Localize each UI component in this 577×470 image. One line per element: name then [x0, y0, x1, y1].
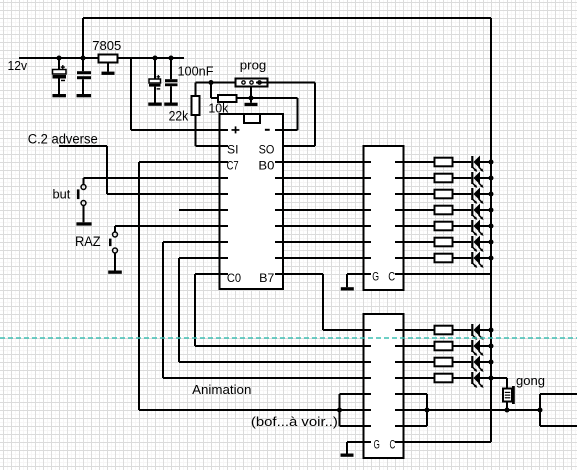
svg-text:SI: SI	[227, 142, 239, 156]
svg-text:C7: C7	[227, 159, 239, 173]
svg-text:7805: 7805	[92, 38, 121, 53]
svg-text:G: G	[374, 438, 380, 452]
svg-text:B0: B0	[258, 159, 274, 173]
svg-text:C0: C0	[227, 271, 241, 285]
svg-text:prog: prog	[240, 58, 266, 73]
svg-text:B7: B7	[259, 271, 275, 285]
svg-text:100nF: 100nF	[178, 63, 214, 78]
svg-text:10k: 10k	[208, 100, 228, 115]
svg-text:SO: SO	[259, 142, 275, 156]
svg-text:C: C	[390, 437, 396, 451]
svg-text:C.2 adverse: C.2 adverse	[28, 132, 98, 147]
svg-text:12v: 12v	[8, 58, 28, 73]
svg-text:Animation: Animation	[192, 382, 251, 397]
svg-text:RAZ: RAZ	[75, 234, 101, 249]
svg-text:C: C	[388, 269, 395, 283]
svg-text:22k: 22k	[169, 108, 189, 123]
svg-text:gong: gong	[516, 373, 545, 388]
svg-text:G: G	[372, 269, 379, 283]
svg-text:but: but	[53, 187, 71, 202]
svg-text:(bof...à voir..): (bof...à voir..)	[251, 414, 338, 429]
